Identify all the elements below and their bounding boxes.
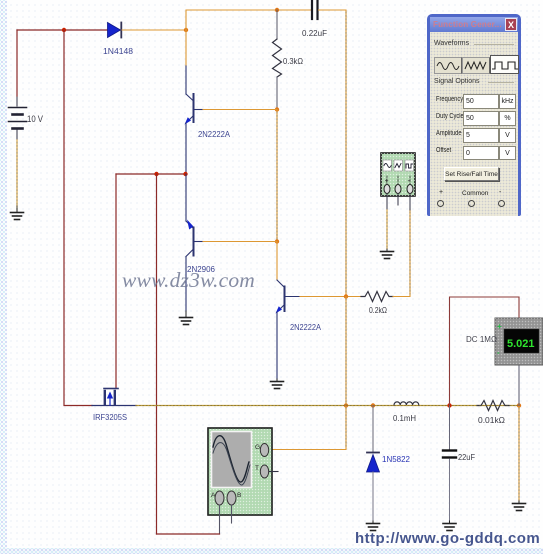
oscilloscope XSC1 <box>208 428 272 515</box>
battery V1 <box>9 96 27 140</box>
diode D1 1N4148 <box>108 23 122 38</box>
svg-text:1N5822: 1N5822 <box>382 455 411 464</box>
ground (C2) <box>443 521 456 531</box>
node junction red (emitters) <box>183 172 187 176</box>
wire Q2 base to bus <box>203 241 277 243</box>
groupbox Waveforms <box>434 40 469 47</box>
resistor R3 0.01k <box>477 401 509 411</box>
row Amplitude <box>436 130 462 137</box>
wire top rail left <box>186 10 311 30</box>
svg-text:5.021: 5.021 <box>507 338 535 350</box>
wire base bus vertical x277 <box>276 110 278 242</box>
ground (D2) <box>367 521 380 531</box>
transistor Q1 2N2222A <box>185 66 204 173</box>
svg-text:+: + <box>497 322 502 331</box>
svg-text:10 V: 10 V <box>27 114 43 124</box>
svg-text:-: - <box>497 348 500 357</box>
ground (FG) <box>381 249 394 259</box>
wire diode to top-left corner node <box>122 29 186 31</box>
node junction orange (rail end) <box>517 403 521 407</box>
wire FG right terminal down <box>409 194 411 210</box>
row Frequency <box>436 96 463 103</box>
capacitor C1 0.22uF <box>312 1 318 19</box>
terminal labels <box>439 189 443 196</box>
node junction orange (R1 top) <box>275 8 279 12</box>
ground (Q2 collector) <box>180 311 193 325</box>
wire top-left horizontal to diode <box>17 29 108 31</box>
node junction red (scope tap) <box>154 172 158 176</box>
svg-text:T: T <box>255 465 259 472</box>
left grid edge strip <box>0 0 7 554</box>
svg-text:G: G <box>255 444 260 451</box>
svg-text:0.22uF: 0.22uF <box>302 28 327 38</box>
svg-text:B: B <box>237 492 241 499</box>
wire scope A drop <box>219 505 221 534</box>
node junction orange (cap bus crossing) <box>344 294 348 298</box>
svg-text:IRF3205S: IRF3205S <box>93 412 127 422</box>
wire top rail right of C1 <box>319 10 347 297</box>
wire FG middle stub <box>397 194 399 205</box>
waveform buttons <box>434 57 462 74</box>
wire Q1 collector from node <box>185 30 187 66</box>
svg-text:1N4148: 1N4148 <box>103 46 133 56</box>
wire cap bus above rail <box>345 297 347 406</box>
wire rail end to ground <box>518 406 520 502</box>
dialog Function Generator <box>427 14 521 216</box>
svg-text:22uF: 22uF <box>458 452 475 462</box>
wire Q1 base to bus <box>203 109 277 111</box>
svg-text:2N2222A: 2N2222A <box>290 322 321 332</box>
wire red to mosfet drain <box>115 174 117 388</box>
svg-text:A: A <box>211 492 216 499</box>
node junction orange (Q2 base) <box>275 239 279 243</box>
voltmeter U1 <box>495 318 543 365</box>
node junction red (meter+ / C2 tap) <box>447 403 451 407</box>
wire R2 to FG+ <box>393 209 410 297</box>
watermark http://www.go-gddq.com <box>355 530 540 547</box>
wire cap bus below rail to scope G <box>269 406 346 450</box>
wire battery top to rail <box>16 30 18 96</box>
svg-text:DC 1MΩ: DC 1MΩ <box>466 334 497 344</box>
mosfet M1 IRF3205S <box>104 389 118 406</box>
wire main rail yellow <box>136 405 519 407</box>
row Offset <box>436 147 451 154</box>
wire red bottom link to scope A <box>157 533 220 535</box>
groupbox Signal Options <box>434 78 480 85</box>
transistor Q2 2N2906 <box>186 174 203 311</box>
svg-text:0.01kΩ: 0.01kΩ <box>478 415 505 425</box>
svg-text:0.2kΩ: 0.2kΩ <box>369 305 387 315</box>
bottom grid edge strip <box>0 548 543 554</box>
capacitor C2 22uF <box>443 406 456 522</box>
node junction orange (cap bus to rail) <box>344 403 348 407</box>
wire voltmeter + loop <box>450 297 520 406</box>
diode D2 1N5822 <box>367 406 380 522</box>
wire FG left terminal to ground <box>386 194 388 249</box>
wire scope T stub <box>269 471 278 473</box>
node junction orange (Q1 base) <box>275 107 279 111</box>
wire scope B stub <box>231 505 233 523</box>
node junction orange (D2 tap) <box>371 403 375 407</box>
inductor L1 0.1mH <box>394 402 419 405</box>
wire mosfet source rail navy part <box>92 405 136 407</box>
button Set Rise/Fall Time <box>444 167 499 181</box>
function generator XFG1 component <box>381 153 415 196</box>
svg-text:2N2222A: 2N2222A <box>198 129 230 139</box>
row Duty Cycle <box>436 113 464 120</box>
resistor R1 0.3k <box>273 10 282 107</box>
wire red vertical battery+ to mosfet gate <box>64 30 92 406</box>
wire red to scope A <box>156 174 158 534</box>
svg-text:0.1mH: 0.1mH <box>393 413 416 423</box>
wire Q3 base to R2 <box>300 296 365 298</box>
svg-text:0.3kΩ: 0.3kΩ <box>283 56 303 66</box>
wire Q3 collector feed <box>276 242 278 281</box>
ground (Q3 emitter) <box>271 379 284 389</box>
transistor Q3 2N2222A <box>276 280 301 379</box>
node junction orange <box>184 28 188 32</box>
watermark www.dz3w.com <box>122 268 255 293</box>
ground (battery) <box>11 206 24 220</box>
ground (rail end) <box>513 501 526 511</box>
node junction red <box>62 28 66 32</box>
resistor R2 0.2k <box>361 292 393 302</box>
svg-text:+: + <box>385 178 389 185</box>
wire red emitter rail horizontal <box>116 173 186 175</box>
wire battery bottom to ground <box>16 140 18 210</box>
wire voltmeter - to rail <box>518 365 520 406</box>
